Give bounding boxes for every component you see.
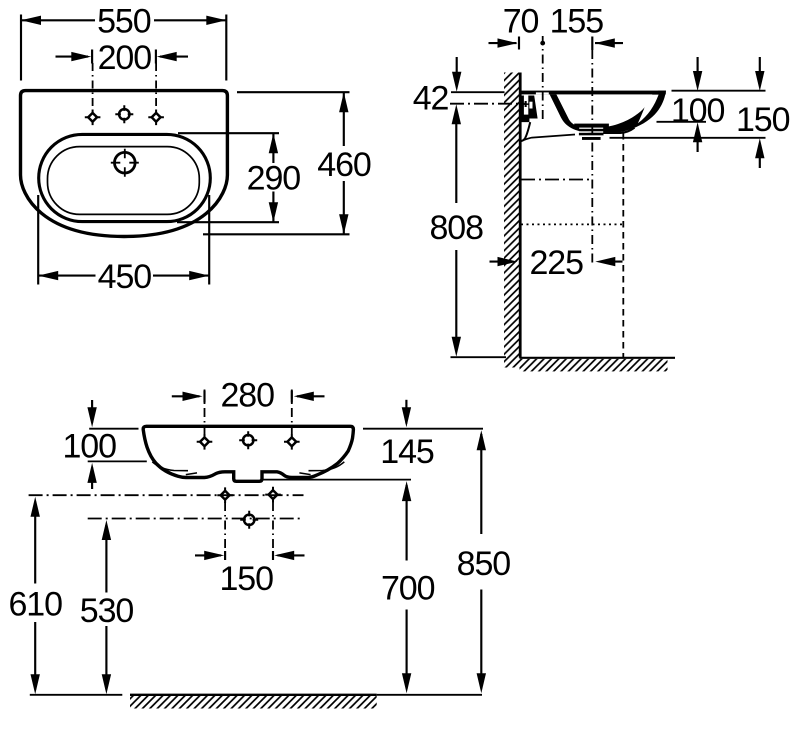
svg-text:460: 460 [317,146,371,184]
svg-text:145: 145 [380,433,434,471]
svg-text:70: 70 [503,2,539,40]
svg-text:450: 450 [98,258,152,296]
svg-text:700: 700 [381,570,435,608]
svg-text:200: 200 [98,39,152,77]
svg-text:850: 850 [457,545,511,583]
svg-text:155: 155 [550,2,604,40]
svg-text:550: 550 [97,3,151,41]
svg-text:225: 225 [529,244,583,282]
svg-text:42: 42 [413,80,449,118]
svg-text:280: 280 [220,377,274,415]
svg-text:100: 100 [671,92,725,130]
svg-text:150: 150 [219,560,273,598]
svg-text:610: 610 [8,586,62,624]
svg-text:290: 290 [247,160,301,198]
svg-text:530: 530 [80,592,134,630]
svg-text:808: 808 [429,209,483,247]
svg-text:150: 150 [736,101,790,139]
svg-text:100: 100 [62,428,116,466]
